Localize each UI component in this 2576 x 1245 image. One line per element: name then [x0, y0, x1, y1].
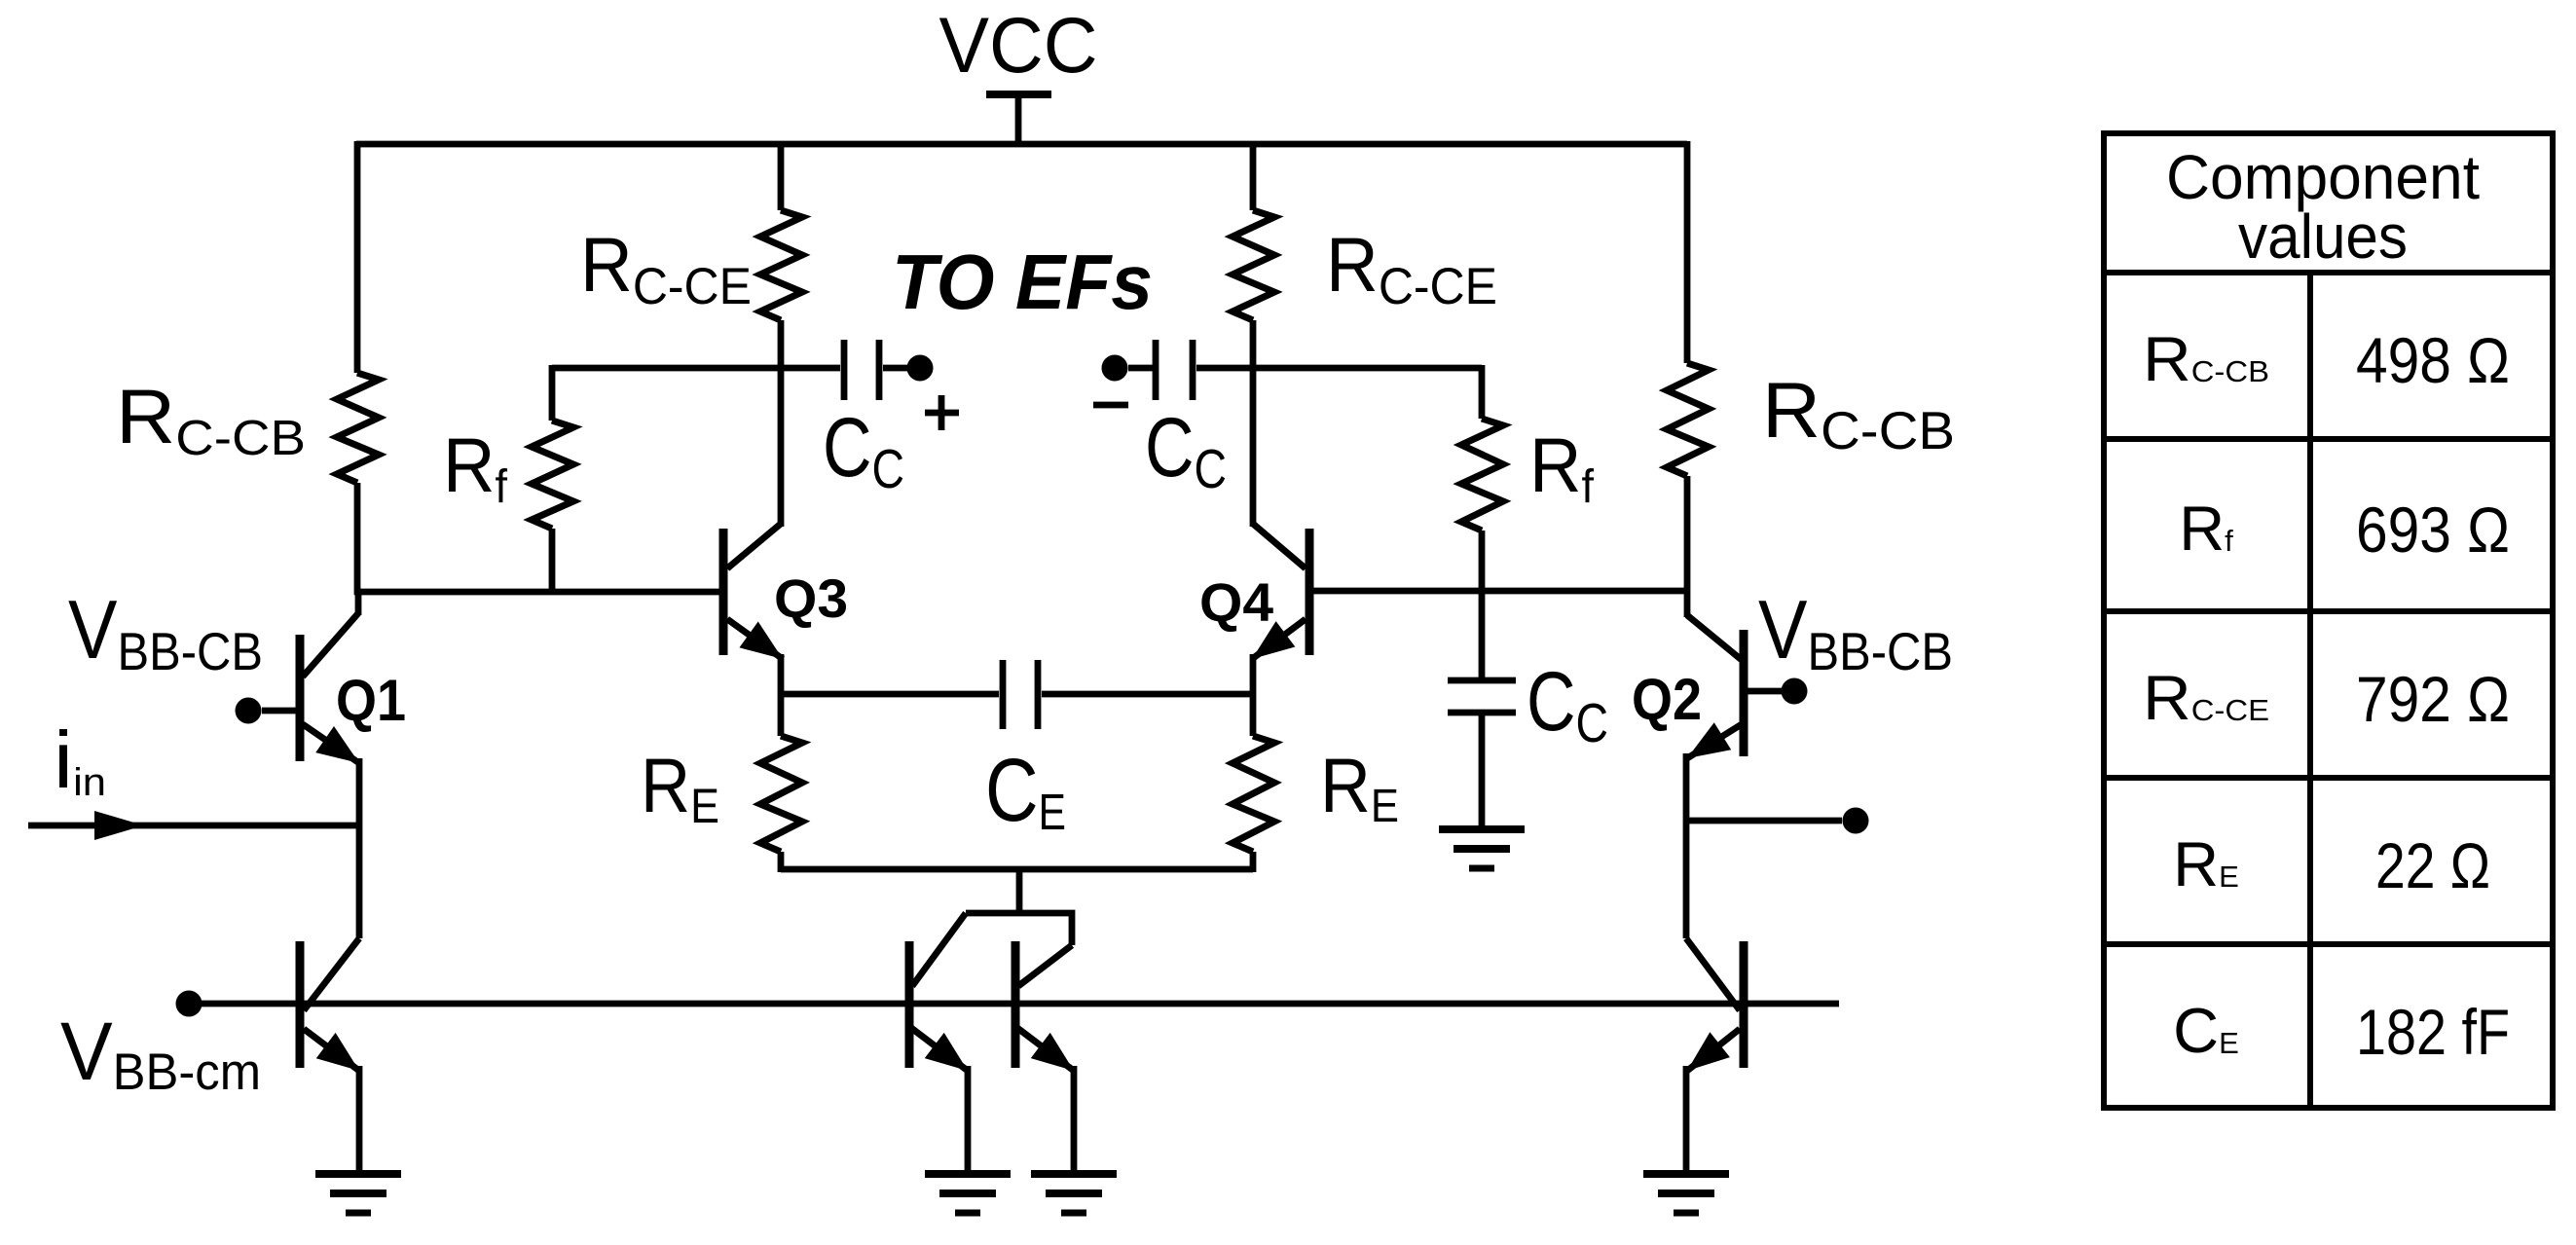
transistor mirror center-right: [1015, 941, 1074, 1071]
ground under C_C: [1439, 829, 1525, 868]
transistor mirror right (under Q2): [1686, 938, 1744, 1071]
wire top rail: [356, 141, 1687, 148]
wire mirror center-left emitter: [965, 1066, 972, 1174]
output line: [1686, 818, 1842, 824]
transistor Q3: [723, 368, 783, 659]
node dot V_BB-CB left: [236, 698, 262, 724]
transistor mirror center-left: [909, 941, 968, 1071]
wire mirror staircase: [912, 913, 1072, 986]
wire C_C left horizontal (R_f to plate): [552, 365, 840, 372]
capacitor C_C right: [1128, 340, 1193, 400]
node dot V_BB-CB right: [1782, 678, 1808, 705]
svg-text:498 Ω: 498 Ω: [2356, 324, 2510, 396]
node dot TO EFs +: [907, 355, 934, 382]
node dot TO EFs -: [1102, 355, 1128, 382]
capacitor C_C vertical (to ground): [1448, 680, 1516, 713]
i_in arrowhead: [94, 811, 144, 840]
wire C_C right horizontal to R_f right: [1196, 365, 1482, 372]
wire left vertical (rail to R_C-CB): [354, 141, 361, 373]
wire R_C-CE right bottom lead: [1250, 320, 1257, 371]
svg-text:Q4: Q4: [1199, 571, 1273, 633]
svg-text:22 Ω: 22 Ω: [2375, 829, 2490, 901]
transistor mirror left (under Q1): [300, 938, 359, 1071]
ground center-left: [925, 1174, 1011, 1213]
ground under Q2: [1643, 1174, 1729, 1213]
minus sign: [1093, 402, 1128, 409]
resistor R_E left: [760, 736, 802, 852]
svg-text:TO EFs: TO EFs: [892, 238, 1153, 325]
resistor R_C-CB left: [337, 373, 379, 483]
resistor R_C-CB right: [1667, 363, 1709, 476]
VCC supply symbol: [986, 94, 1051, 144]
V_BB-cm rail: [189, 1001, 1839, 1007]
resistor R_f left: [549, 365, 556, 421]
node dot output: [1843, 808, 1869, 834]
resistor R_C-CE right: [1233, 210, 1274, 320]
wire right base node line: [1313, 588, 1690, 595]
wire bottom rail of R_E/C_E: [781, 866, 1253, 873]
wire Q1 emitter vertical: [356, 758, 363, 938]
wire mirror right emitter: [1683, 1066, 1690, 1174]
svg-text:values: values: [2238, 201, 2408, 272]
plus sign: [925, 395, 959, 430]
wire R_C-CE left bottom lead: [778, 320, 785, 371]
resistor R_f right: [1479, 365, 1486, 419]
capacitor C_C left: [844, 340, 909, 400]
wire Q2 emitter vertical: [1683, 753, 1690, 938]
wire mirror center-right emitter: [1071, 1066, 1078, 1174]
svg-text:792 Ω: 792 Ω: [2356, 663, 2510, 735]
capacitor C_E: [781, 660, 1253, 729]
svg-text:182 fF: 182 fF: [2356, 996, 2510, 1068]
resistor R_C-CE left: [760, 210, 802, 320]
transistor Q4: [1252, 368, 1309, 659]
wire left base node line: [354, 589, 723, 596]
wire R_C-CB right bottom lead: [1684, 476, 1691, 617]
wire R_C-CE right top lead: [1250, 141, 1257, 210]
wire center stub to current mirror: [1016, 869, 1023, 913]
svg-text:693 Ω: 693 Ω: [2356, 494, 2510, 566]
wire Q4 emitter vertical: [1250, 654, 1257, 736]
node dot V_BB-cm: [176, 991, 202, 1017]
wire right vertical (rail to R_C-CB right): [1684, 141, 1691, 363]
resistor R_E right: [1233, 736, 1274, 852]
svg-text:Q1: Q1: [336, 668, 406, 733]
ground center-right: [1031, 1174, 1117, 1213]
svg-text:Q3: Q3: [774, 568, 848, 629]
ground under Q1: [315, 1174, 401, 1213]
svg-text:VCC: VCC: [939, 2, 1098, 90]
transistor Q1: [262, 592, 359, 763]
svg-text:Q2: Q2: [1632, 667, 1702, 732]
wire mirror left emitter: [356, 1066, 363, 1174]
wire R_C-CB bottom lead: [354, 483, 361, 595]
wire Q3 emitter vertical: [778, 654, 785, 736]
component values table frame: [2101, 133, 2556, 1108]
i_in input line: [28, 823, 359, 829]
transistor Q2: [1687, 615, 1782, 758]
wire R_C-CE left top lead: [778, 141, 785, 210]
